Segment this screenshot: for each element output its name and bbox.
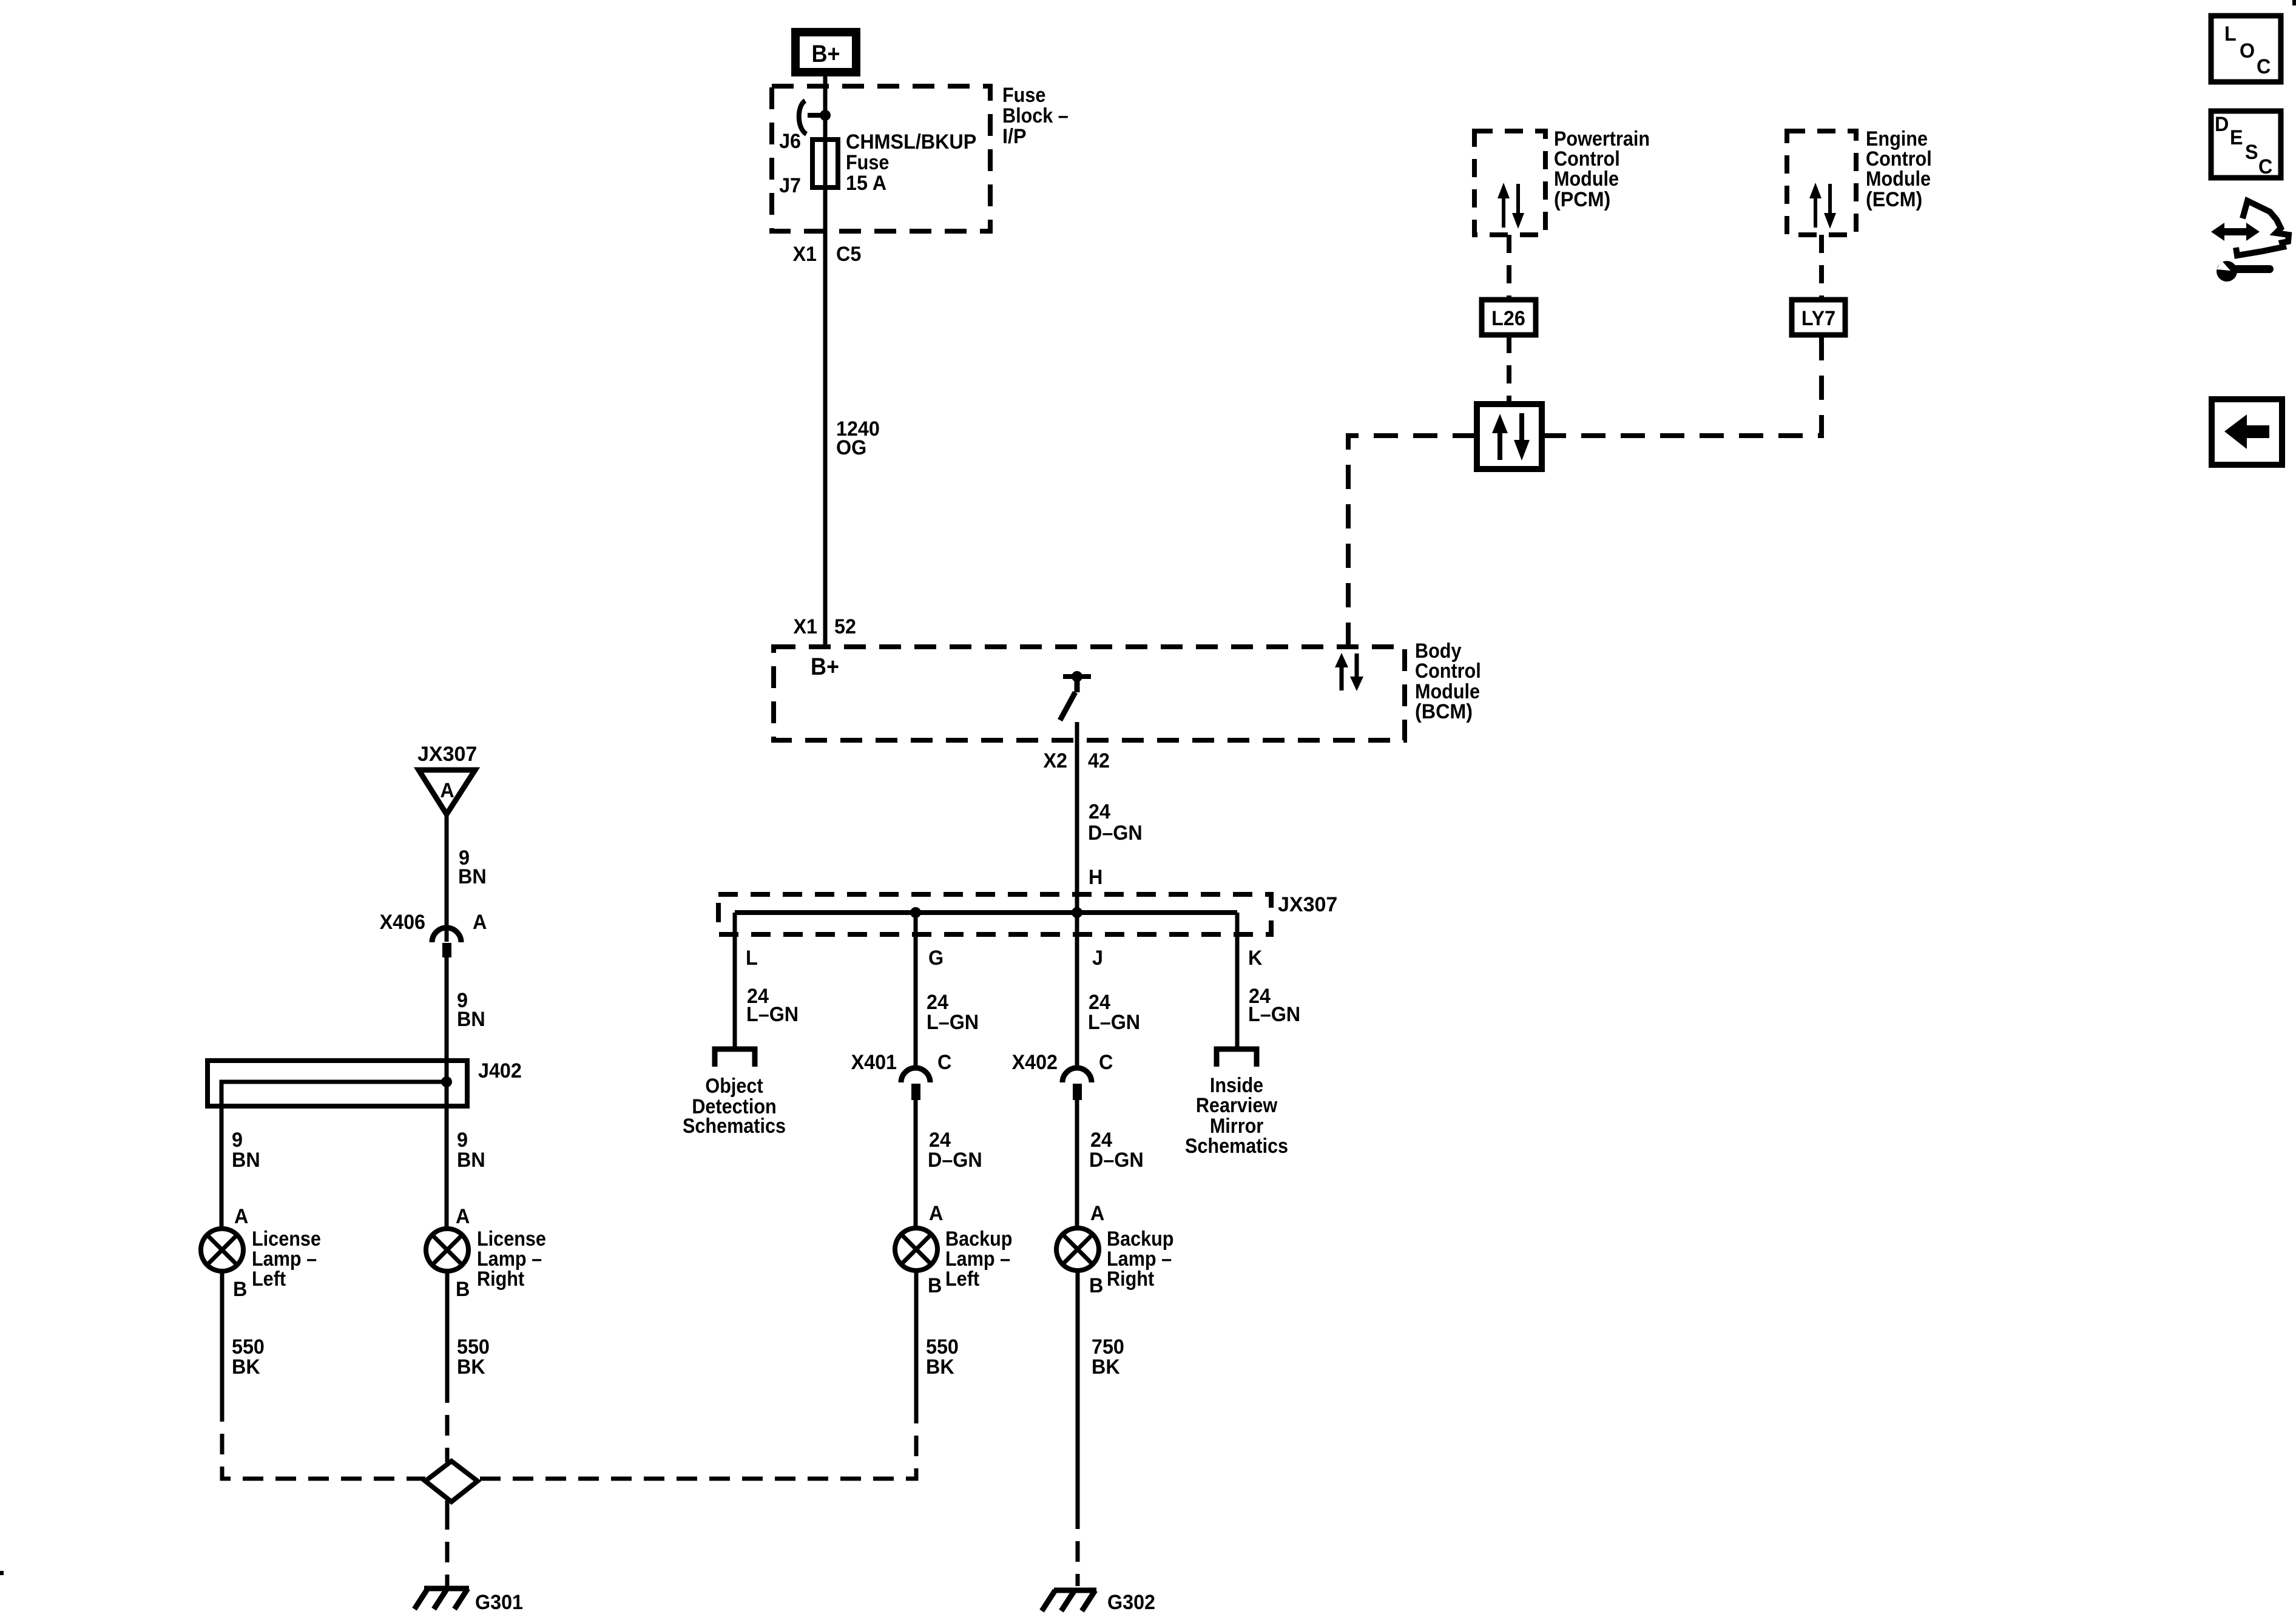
svg-text:Object: Object [705,1075,763,1098]
svg-text:24: 24 [1089,800,1110,823]
wire backup lamp right down [1076,1271,1080,1508]
node Object Detection Schematics label [683,1075,786,1138]
node junction bus at G [910,907,921,918]
svg-text:Rearview: Rearview [1196,1094,1278,1117]
fuse block name label [1002,84,1069,149]
svg-text:(PCM): (PCM) [1554,188,1610,211]
wire J402 to license lamp left [220,1082,224,1229]
wire dashed ECM to LY7 [1819,235,1824,300]
svg-text:BK: BK [926,1355,954,1379]
connector JX307 cavity A triangle [419,770,475,814]
svg-text:G302: G302 [1107,1591,1155,1614]
svg-text:S: S [2245,141,2258,164]
svg-text:L: L [746,947,758,970]
wire dashed to ground G302 [1076,1508,1080,1586]
pin X1 C5 labels [792,243,861,266]
node Inside Rearview Mirror Schematics label [1185,1074,1288,1158]
svg-text:X1: X1 [793,615,817,638]
svg-text:D–GN: D–GN [1089,1149,1144,1172]
svg-text:Fuse: Fuse [846,151,889,174]
connector X406 labels [380,911,487,934]
svg-text:A: A [440,779,454,802]
wire dashed gateway to ECM branch [1542,335,1822,436]
svg-text:D: D [2215,113,2229,136]
connector X402 symbol [1062,1068,1092,1100]
svg-text:A: A [1090,1202,1104,1225]
wire JX307-A to X406 [445,814,449,942]
wire label 24 L-GN branch L [746,985,799,1026]
svg-text:42: 42 [1088,749,1110,772]
wire X406 to splice J402 [445,957,449,1082]
ECM name label [1866,127,1932,212]
connector JX307 dashed box [718,894,1271,934]
svg-text:X401: X401 [851,1051,897,1074]
svg-text:(BCM): (BCM) [1415,700,1473,723]
wire X401 to backup lamp left [914,1100,918,1228]
lamp name label License Lamp Right [477,1227,546,1291]
PCM name label [1554,127,1650,212]
svg-text:B: B [1089,1274,1103,1297]
wire label 9 BN lower [457,989,485,1031]
svg-text:K: K [1248,947,1262,970]
wire label 9 BN license left [232,1129,260,1172]
svg-text:Left: Left [252,1268,286,1291]
BCM serial data arrows [1335,653,1363,691]
lamp name label Backup Lamp Left [945,1227,1012,1291]
wire dashed PCM to L26 [1507,235,1511,300]
wire J402 internal bus [221,1082,447,1106]
svg-text:A: A [456,1205,470,1228]
svg-text:Schematics: Schematics [683,1115,786,1138]
svg-text:JX307: JX307 [1278,893,1337,916]
svg-text:G301: G301 [475,1591,523,1614]
wire dashed diamond to ground G301 [445,1509,450,1586]
svg-text:B+: B+ [811,653,839,680]
fuse block bus hook [799,101,806,134]
wire backup lamp left down [914,1271,919,1403]
node junction inside J402 [441,1076,452,1087]
op BCM body control module dashed box [774,647,1405,740]
svg-text:X406: X406 [380,911,425,934]
svg-text:JX307: JX307 [417,743,477,766]
ECM serial data arrows [1809,183,1836,229]
pin X2 42 labels [1043,749,1109,772]
node B+ battery feed box [795,32,856,72]
svg-text:D–GN: D–GN [928,1149,982,1172]
svg-text:B+: B+ [811,41,840,67]
svg-text:L–GN: L–GN [927,1011,979,1034]
wire JX307 internal bus [735,910,1237,915]
svg-text:BN: BN [232,1149,260,1172]
svg-text:L–GN: L–GN [1088,1011,1140,1034]
svg-text:BK: BK [457,1355,485,1379]
fuse value label CHMSL/BKUP Fuse 15 A [846,130,976,195]
lamp name label License Lamp Left [252,1227,321,1291]
connector X401 symbol [901,1068,930,1100]
svg-text:C: C [1099,1051,1113,1074]
lamp name label Backup Lamp Right [1107,1227,1173,1291]
wire bus hook to junction [808,113,825,118]
svg-text:A: A [234,1205,248,1228]
wire dashed backup left to ground run [478,1403,916,1479]
svg-text:BN: BN [458,865,487,888]
node LY7 box [1792,300,1845,335]
svg-text:LY7: LY7 [1801,307,1835,330]
fuse block I/P dashed box [772,86,990,231]
node off-page bracket to Object Detection [715,1049,755,1067]
node off-page bracket to Inside Rearview Mirror [1217,1049,1257,1067]
svg-text:(ECM): (ECM) [1866,188,1922,211]
svg-text:BN: BN [457,1149,485,1172]
svg-text:C: C [2257,55,2271,78]
wire license lamp right down [445,1271,450,1382]
ground G301 [414,1588,469,1609]
wire branch J from JX307 bus [1075,913,1079,1069]
svg-text:D–GN: D–GN [1088,822,1143,845]
wire label 550 BK license left [232,1335,265,1379]
svg-text:X2: X2 [1043,749,1067,772]
svg-text:B: B [233,1278,247,1301]
wire label 1240 OG [836,417,880,459]
wire label 24 L-GN branch J [1088,991,1140,1034]
lamp Backup Lamp Right [1056,1228,1099,1271]
icon DESC hotspot box [2211,111,2281,178]
svg-text:I/P: I/P [1002,125,1026,148]
wire BCM X2-42 to JX307 bus [1075,722,1079,913]
wire label 9 BN license right [457,1129,485,1172]
svg-text:J: J [1092,947,1103,970]
PCM serial data arrows [1497,183,1524,229]
svg-text:Right: Right [1107,1268,1154,1291]
svg-text:OG: OG [836,436,866,459]
wire X402 to backup lamp right [1075,1100,1079,1228]
ground G302 [1042,1590,1096,1611]
svg-text:B: B [928,1274,942,1297]
lamp License Lamp Left [201,1229,243,1271]
svg-text:L: L [2224,22,2237,46]
wire label 24 L-GN branch G [927,991,979,1034]
splice diamond ground junction [425,1454,478,1509]
svg-text:C5: C5 [836,243,861,266]
svg-text:X1: X1 [792,243,817,266]
svg-text:Fuse: Fuse [1002,84,1045,107]
svg-text:CHMSL/BKUP: CHMSL/BKUP [846,130,976,154]
svg-text:15 A: 15 A [846,172,886,195]
svg-text:BK: BK [232,1355,260,1379]
wire label 9 BN upper [458,846,487,888]
lamp Backup Lamp Left [895,1228,937,1271]
svg-text:J7: J7 [779,174,801,197]
svg-text:Block –: Block – [1002,104,1069,127]
svg-text:O: O [2240,39,2255,62]
svg-text:Right: Right [477,1268,524,1291]
node junction bus at J [1072,907,1082,918]
svg-text:C: C [937,1051,951,1074]
fuse CHMSL/BKUP 15A [812,140,838,187]
connector X406 symbol [432,928,461,957]
wire label 24 D-GN [1088,800,1143,845]
connector X401 labels [851,1051,952,1074]
svg-text:Schematics: Schematics [1185,1135,1288,1158]
svg-text:L–GN: L–GN [746,1003,799,1026]
BCM name label [1415,640,1481,724]
svg-text:L26: L26 [1491,307,1525,330]
node L26 box [1482,300,1536,335]
svg-text:BN: BN [457,1008,485,1031]
wire branch K from JX307 bus [1235,913,1240,1048]
svg-text:Control: Control [1415,660,1481,683]
svg-text:C: C [2258,155,2272,178]
icon car diagnostic with arrow and wrench [2211,201,2289,282]
pin X1 52 labels at BCM [793,615,856,638]
connector X402 labels [1012,1051,1113,1074]
wire label 550 BK backup left [926,1335,959,1379]
wire license lamp left down [220,1271,225,1401]
svg-text:L–GN: L–GN [1248,1003,1300,1026]
svg-text:52: 52 [834,615,856,638]
wire label 750 BK [1092,1335,1124,1379]
mark top right corner [2292,0,2296,5]
svg-text:J6: J6 [779,130,801,153]
wire label 24 D-GN backup left [928,1129,982,1172]
wire dashed gateway to BCM serial input [1348,436,1477,647]
mark bottom left edge [0,1571,4,1575]
svg-text:BK: BK [1092,1355,1120,1379]
wire dashed license left to ground run [222,1401,425,1479]
wire dashed license right to splice diamond [445,1382,450,1456]
svg-text:H: H [1089,866,1102,889]
wire dashed L26 to gateway box [1507,335,1511,404]
svg-text:Left: Left [945,1268,979,1291]
svg-text:E: E [2230,126,2243,149]
wire label 24 D-GN backup right [1089,1129,1144,1172]
icon back arrow box [2212,399,2282,465]
svg-text:Module: Module [1415,680,1480,703]
svg-text:B: B [456,1278,470,1301]
op serial data gateway box with arrows [1477,404,1542,469]
svg-text:A: A [473,911,487,934]
wire B+ feed to BCM pin X1-52 [823,76,828,647]
icon LOC hotspot box [2211,16,2281,82]
svg-text:G: G [928,947,944,970]
svg-text:Module: Module [1554,167,1619,191]
wire label 24 L-GN branch K [1248,985,1300,1026]
node junction on B+ feed inside fuse block [820,110,831,121]
wire label 550 BK license right [457,1335,490,1379]
lamp License Lamp Right [426,1229,468,1271]
switch inside BCM [1060,671,1091,720]
svg-text:J402: J402 [478,1059,522,1082]
op PCM dashed box [1474,131,1545,235]
svg-text:X402: X402 [1012,1051,1058,1074]
wire branch G from JX307 bus [914,913,918,1069]
svg-text:Module: Module [1866,167,1931,191]
splice pack J402 box [208,1061,467,1106]
op ECM dashed box [1787,131,1856,235]
svg-text:A: A [929,1202,943,1225]
wire J402 to license lamp right [445,1082,449,1229]
wire branch L from JX307 bus [733,913,737,1048]
